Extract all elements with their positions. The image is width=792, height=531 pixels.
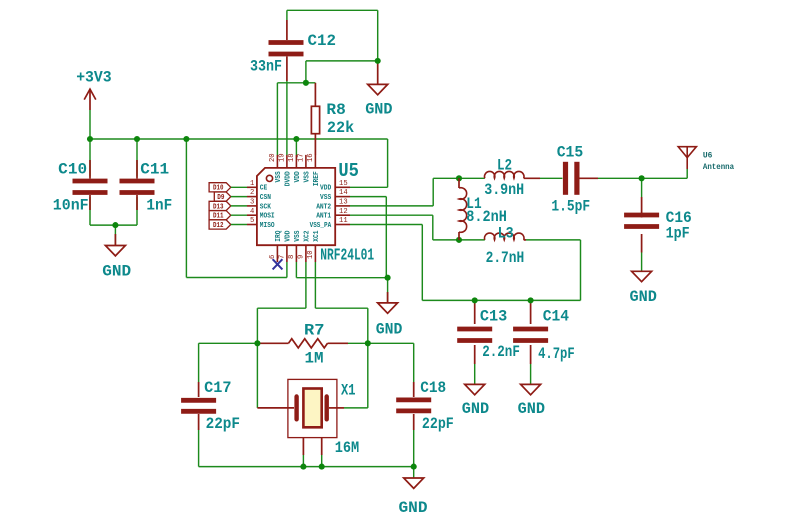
svg-text:GND: GND (365, 101, 392, 119)
svg-text:GND: GND (399, 499, 428, 517)
svg-text:16: 16 (307, 153, 315, 162)
svg-text:6: 6 (269, 255, 277, 259)
svg-text:C18: C18 (420, 379, 446, 397)
svg-text:U6: U6 (703, 151, 713, 161)
svg-text:GND: GND (102, 262, 131, 280)
svg-text:20: 20 (269, 153, 277, 162)
svg-text:VSS: VSS (275, 171, 283, 182)
svg-text:10nF: 10nF (53, 197, 89, 215)
svg-text:C15: C15 (557, 143, 584, 161)
svg-text:17: 17 (298, 153, 306, 162)
svg-text:C13: C13 (480, 307, 507, 325)
svg-text:SCK: SCK (260, 203, 272, 211)
svg-text:GND: GND (630, 288, 657, 306)
svg-text:L3: L3 (498, 225, 514, 243)
svg-text:VDD: VDD (284, 230, 292, 241)
svg-text:DVDD: DVDD (284, 171, 292, 186)
svg-text:X1: X1 (341, 382, 356, 400)
svg-text:11: 11 (339, 217, 348, 225)
svg-text:C10: C10 (58, 160, 87, 178)
svg-text:4: 4 (250, 208, 254, 216)
svg-text:R8: R8 (326, 101, 345, 119)
svg-text:VSS: VSS (320, 194, 331, 202)
svg-text:GND: GND (518, 400, 545, 418)
svg-text:XC1: XC1 (313, 230, 321, 241)
svg-text:3.9nH: 3.9nH (484, 181, 524, 199)
svg-text:VSS: VSS (303, 171, 311, 182)
svg-text:7: 7 (279, 255, 287, 259)
svg-text:ANT1: ANT1 (316, 213, 331, 221)
svg-text:C17: C17 (204, 379, 231, 397)
svg-text:16M: 16M (335, 439, 360, 457)
svg-text:12: 12 (339, 208, 348, 216)
svg-text:C11: C11 (140, 160, 169, 178)
svg-text:8: 8 (288, 255, 296, 259)
svg-text:C14: C14 (543, 307, 569, 325)
svg-text:22k: 22k (327, 119, 354, 137)
svg-text:VDD: VDD (320, 185, 331, 193)
svg-text:33nF: 33nF (250, 57, 282, 75)
svg-text:GND: GND (462, 400, 489, 418)
svg-text:1pF: 1pF (666, 224, 690, 242)
svg-text:14: 14 (339, 189, 348, 197)
svg-text:CSN: CSN (260, 194, 271, 202)
svg-text:L2: L2 (497, 156, 512, 174)
svg-text:IRQ: IRQ (275, 230, 283, 241)
svg-text:19: 19 (279, 153, 287, 162)
svg-text:22pF: 22pF (422, 415, 454, 433)
svg-text:VSS: VSS (294, 230, 302, 241)
svg-text:IREF: IREF (313, 171, 321, 186)
svg-text:1nF: 1nF (146, 197, 172, 215)
svg-text:18: 18 (288, 153, 296, 162)
svg-text:8.2nH: 8.2nH (466, 208, 507, 226)
svg-text:1M: 1M (305, 350, 324, 368)
svg-text:CE: CE (260, 185, 268, 193)
svg-text:13: 13 (339, 199, 348, 207)
svg-text:1: 1 (250, 180, 254, 188)
svg-text:NRF24L01: NRF24L01 (320, 246, 374, 265)
svg-text:U5: U5 (338, 160, 359, 182)
svg-text:VSS_PA: VSS_PA (310, 222, 332, 230)
svg-text:+3V3: +3V3 (76, 69, 112, 87)
svg-text:3: 3 (250, 199, 254, 207)
svg-text:C12: C12 (308, 32, 337, 50)
svg-text:2.2nF: 2.2nF (482, 343, 520, 361)
svg-text:D12: D12 (213, 222, 224, 230)
svg-text:MOSI: MOSI (260, 213, 275, 221)
svg-text:Antenna: Antenna (703, 162, 734, 172)
svg-text:22pF: 22pF (206, 415, 240, 433)
svg-text:MISO: MISO (260, 222, 275, 230)
svg-text:2: 2 (250, 189, 254, 197)
svg-text:5: 5 (250, 217, 254, 225)
svg-text:10: 10 (307, 250, 315, 259)
svg-text:1.5pF: 1.5pF (551, 197, 590, 215)
svg-text:VDD: VDD (294, 171, 302, 182)
svg-text:ANT2: ANT2 (316, 203, 331, 211)
svg-text:4.7pF: 4.7pF (538, 345, 575, 363)
svg-text:R7: R7 (304, 322, 325, 340)
svg-text:9: 9 (298, 255, 306, 259)
svg-text:GND: GND (376, 320, 403, 338)
svg-text:XC2: XC2 (303, 230, 311, 241)
svg-text:2.7nH: 2.7nH (486, 249, 525, 267)
